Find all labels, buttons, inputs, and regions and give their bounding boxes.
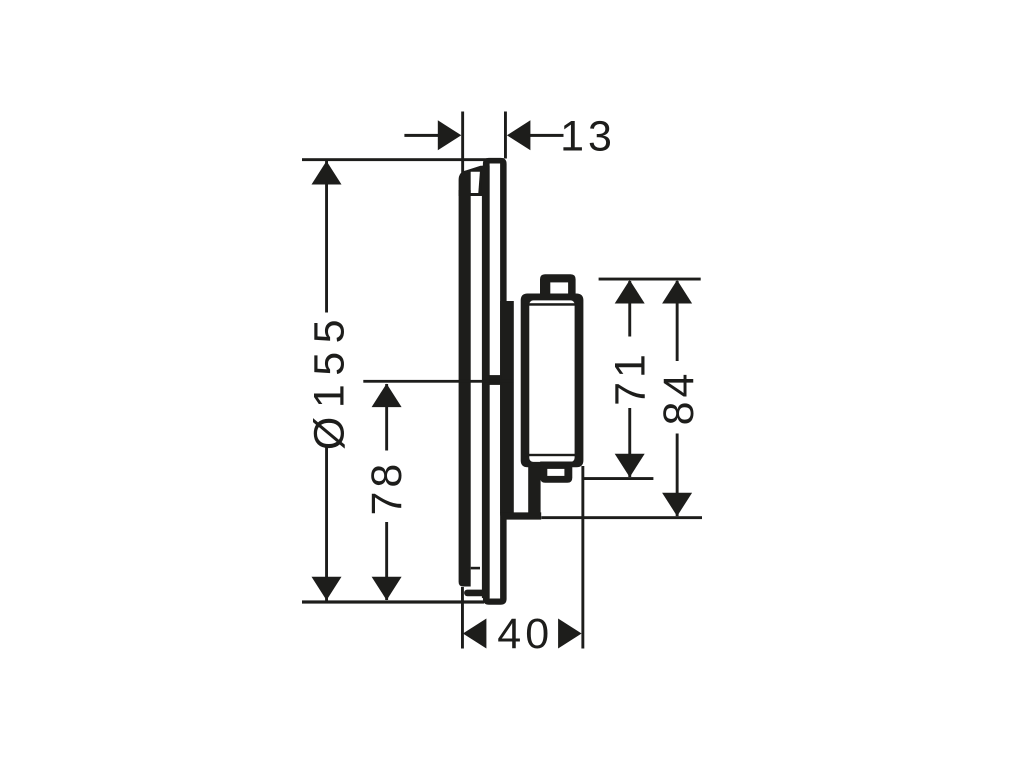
body inner bottom line	[525, 454, 580, 456]
right ext line	[581, 466, 584, 649]
bottom arrowhead	[372, 577, 402, 601]
dim line upper	[385, 384, 388, 451]
top ext line	[599, 278, 701, 281]
centerline tick through plate	[487, 375, 502, 385]
ext line A	[461, 112, 464, 175]
svg-text:Ø155: Ø155	[306, 311, 354, 450]
plate interior white	[490, 164, 501, 599]
right arrowhead	[558, 619, 582, 649]
left arrowhead	[438, 120, 462, 150]
svg-text:40: 40	[497, 610, 553, 658]
dim line lower	[385, 522, 388, 600]
flange bar right of plate	[500, 301, 514, 513]
top arrowhead	[372, 384, 402, 408]
body interior white	[529, 300, 574, 462]
dim line lower	[628, 408, 631, 477]
top knob inner white	[550, 282, 568, 294]
bottom arrowhead	[312, 577, 342, 601]
svg-text:84: 84	[655, 370, 703, 426]
top knob	[540, 274, 576, 297]
lower stub	[528, 467, 540, 514]
top arrowhead	[662, 280, 692, 304]
handle top cap	[459, 166, 484, 196]
svg-text:13: 13	[560, 113, 616, 161]
top arrowhead	[615, 280, 645, 304]
dim line upper	[628, 281, 631, 337]
centerline	[363, 380, 513, 383]
bottom ext line	[541, 516, 702, 519]
flange foot	[500, 512, 541, 519]
left tail	[404, 134, 438, 137]
ext line B	[504, 112, 507, 159]
right tail	[530, 134, 564, 137]
bottom knob	[540, 462, 572, 483]
svg-text:71: 71	[606, 350, 654, 406]
svg-text:78: 78	[363, 460, 411, 516]
dim line upper	[676, 281, 679, 361]
handle bottom bar	[464, 590, 487, 597]
handle left band	[459, 190, 471, 587]
plate outer	[483, 158, 507, 605]
handle slot tick	[471, 567, 480, 570]
handle right band merged with plate left edge	[482, 166, 490, 598]
bottom arrowhead	[662, 493, 692, 517]
bottom knob inner white	[547, 469, 564, 476]
right arrowhead	[507, 120, 531, 150]
dim line upper	[325, 161, 328, 313]
bottom ext line	[302, 600, 484, 603]
bottom arrowhead	[615, 454, 645, 478]
bottom ext line	[583, 477, 653, 480]
dim line lower	[676, 434, 679, 517]
left ext line	[461, 587, 464, 649]
dim line lower	[325, 448, 328, 601]
top arrowhead	[312, 161, 342, 185]
body inner top line	[525, 303, 580, 306]
top ext line	[302, 158, 504, 161]
handle cap notch white	[471, 172, 480, 193]
body outer	[521, 294, 584, 468]
left arrowhead	[463, 619, 487, 649]
